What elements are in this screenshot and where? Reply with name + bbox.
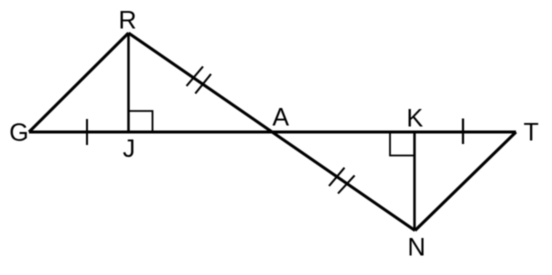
svg-text:R: R bbox=[118, 7, 136, 35]
wire N-T bbox=[415, 132, 516, 231]
wire G-R bbox=[29, 33, 129, 132]
right angle at J bbox=[129, 111, 153, 131]
wire R-A-N bbox=[129, 33, 416, 231]
right angle at K bbox=[390, 132, 415, 156]
double tick RA bbox=[187, 67, 212, 94]
svg-text:G: G bbox=[9, 119, 28, 147]
wire altitude R-J bbox=[127, 35, 130, 132]
svg-text:N: N bbox=[407, 234, 425, 262]
svg-text:K: K bbox=[406, 105, 423, 133]
svg-text:T: T bbox=[524, 119, 539, 147]
wire baseline G-T bbox=[29, 131, 516, 134]
svg-text:A: A bbox=[272, 104, 289, 132]
tick GJ bbox=[86, 119, 88, 145]
svg-text:J: J bbox=[123, 135, 136, 163]
double tick AN bbox=[329, 168, 355, 194]
wire altitude N-K bbox=[413, 131, 416, 231]
tick KT bbox=[462, 119, 464, 145]
